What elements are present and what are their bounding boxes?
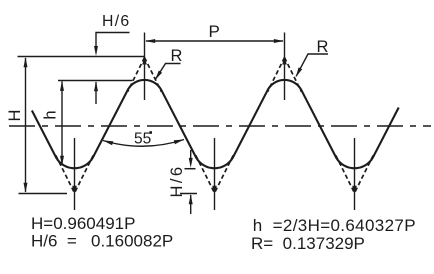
crest 2 sharp apex arrowhead	[282, 57, 287, 65]
H/6 bottom lower arrow	[190, 195, 192, 214]
dashed sharp crest V 1	[128, 58, 162, 92]
R leader 1	[156, 64, 181, 80]
crest 1 centerline / P extension line	[144, 33, 146, 101]
svg-text:H: H	[6, 110, 24, 122]
h dimension line with arrows	[61, 82, 63, 166]
crest 2 centerline / P extension line	[284, 33, 286, 101]
H/6 top leader bracket	[96, 33, 130, 48]
svg-text:H=0.960491P: H=0.960491P	[31, 214, 135, 233]
horizontal dash-dot centerline (pitch axis)	[9, 125, 431, 127]
dashed sharp root V 1	[56, 155, 93, 193]
dashed sharp crest V 2	[268, 58, 302, 92]
H/6 top lower arrow	[95, 82, 97, 104]
H dimension extension line top (sharp crest plane)	[18, 56, 145, 58]
svg-text:H/6: H/6	[102, 13, 130, 30]
h dimension extension line top (crest plane)	[58, 80, 133, 82]
valley 1 centerline	[74, 138, 76, 210]
valley 3 sharp apex arrowhead	[352, 186, 357, 194]
degree mark	[149, 131, 152, 134]
R leader 2	[296, 54, 328, 76]
P dimension line with outward arrows	[146, 40, 283, 42]
svg-text:H/6 = 0.160082P: H/6 = 0.160082P	[31, 232, 173, 251]
valley 1 sharp apex arrowhead	[72, 186, 77, 194]
dashed sharp root V 2	[196, 155, 233, 193]
H/6 bottom extension line (root plane)	[185, 168, 196, 170]
svg-text:R: R	[171, 47, 183, 65]
svg-text:H/6: H/6	[168, 165, 186, 198]
H dimension extension line bottom (sharp root plane)	[19, 193, 68, 195]
dashed sharp root V 3	[336, 155, 373, 193]
crest 1 sharp apex arrowhead	[142, 57, 147, 65]
valley 3 centerline	[354, 138, 356, 210]
thread profile outline	[32, 80, 399, 168]
H/6 bottom extension line (sharp root plane)	[180, 193, 197, 195]
svg-text:h =2/3H=0.640327P: h =2/3H=0.640327P	[253, 216, 416, 235]
svg-text:R= 0.137329P: R= 0.137329P	[251, 234, 365, 253]
svg-text:R: R	[317, 38, 329, 56]
H/6 bottom upper arrow	[190, 150, 192, 158]
svg-text:55: 55	[134, 131, 151, 148]
valley 2 sharp apex arrowhead	[212, 186, 217, 194]
svg-text:h: h	[42, 110, 60, 119]
valley 2 centerline	[214, 138, 216, 210]
55 degree angle arc with arrows	[103, 140, 184, 147]
svg-text:P: P	[209, 22, 220, 41]
H dimension line with arrows	[25, 58, 27, 192]
